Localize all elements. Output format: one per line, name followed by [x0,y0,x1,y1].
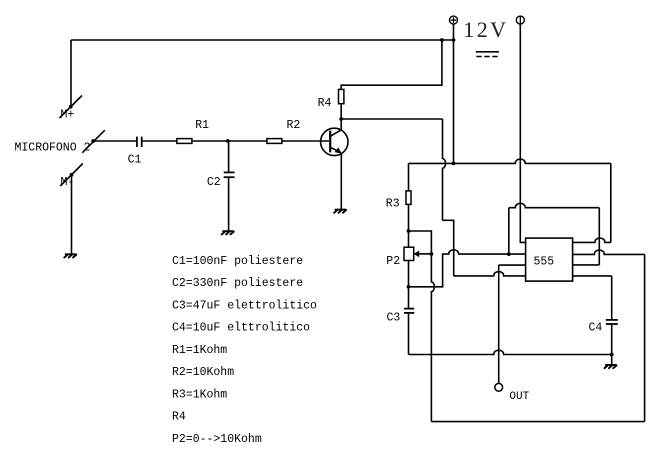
wire jumper right down [598,208,600,265]
wire C4 top stem [611,276,613,320]
wire feedback bottom rail [431,421,644,423]
wire ground rail bottom with hop over OUT wire [409,350,613,354]
svg-text:C1: C1 [128,154,142,167]
wire P2 bottom stem [408,261,410,287]
potentiometer P2 body [404,247,414,260]
node M+ pin slash [59,96,82,119]
wire R1 to node A [192,140,228,142]
node top rail junction dot left [440,38,444,42]
wire C3 bottom stem [408,314,410,355]
svg-text:R3=1Kohm: R3=1Kohm [172,388,227,401]
wire jumper horizontal with hop over minus wire [509,203,600,207]
wire wiper column down with hop over P2 bottom wire [431,254,434,422]
wire emitter stem [340,154,342,209]
wire wiper arrow wire [418,253,432,255]
battery minus terminal [516,16,524,24]
wire collector signal jog right [443,220,454,276]
wire collector signal down right column with hop over vcc rail [443,119,446,220]
ground below C2 [222,231,234,234]
node M- pin dot [70,173,74,177]
wire R2 to base Q1 [282,140,329,142]
capacitor C3 [404,309,414,313]
transistor Q1 [321,128,348,155]
ground below M- [64,254,76,257]
ic 555 box [526,238,573,281]
wire top rail from M+ to 12V plus [71,39,454,41]
wire R3 top stem [408,163,410,191]
node vcc rail junction dot [452,162,456,166]
node trigger junction dot [507,252,511,256]
svg-text:R4: R4 [318,97,332,110]
svg-text:R4: R4 [172,411,186,424]
wire collector stem through node B [340,104,342,130]
DC symbol [476,52,499,57]
resistor R4 [339,89,344,103]
svg-text:12V: 12V [463,17,508,42]
capacitor C2 [224,172,235,177]
node M- pin slash [60,164,83,187]
svg-text:R3: R3 [386,197,400,210]
ground below C4 [605,365,617,368]
wire M+ stem [70,40,72,107]
wire C2 bottom stem [228,178,230,231]
wire 555 right pin to feedback column with hop [573,250,645,254]
wire collector signal to 555 left pin with hop over OUT wire [454,272,526,276]
wire feedback column down [644,254,646,421]
wire P2 top stem [408,231,410,247]
wire R4 top to top rail [341,40,442,89]
wire C3 top stem [408,287,410,308]
svg-text:C2: C2 [207,176,221,189]
svg-text:C2=330nF poliestere: C2=330nF poliestere [172,277,303,290]
wire C2 top stem [228,141,230,172]
wire R3 junction to wiper column [409,231,432,254]
wire ground stub [611,355,613,365]
wire vcc to 555 pin8 with hop [573,238,611,242]
svg-text:R2=10Kohm: R2=10Kohm [172,366,234,379]
wire node B to right column [341,118,442,120]
legend text block [172,255,317,446]
wire OUT vertical [498,265,500,383]
svg-text:C4: C4 [589,322,603,335]
node wiper junction dot [430,252,434,256]
wire vcc rail horizontal with hop over minus wire [409,159,611,163]
svg-text:M-: M- [61,176,75,189]
svg-text:C1=100nF poliestere: C1=100nF poliestere [172,255,303,268]
battery plus terminal [450,16,458,24]
wire node A to R2 [228,140,267,142]
svg-text:C3: C3 [387,311,401,324]
svg-text:R2: R2 [287,119,301,132]
svg-text:M+: M+ [61,109,75,122]
svg-text:R1: R1 [195,119,209,132]
node MICROFONO pin dot [91,139,95,143]
svg-text:C3=47uF elettrolitico: C3=47uF elettrolitico [172,299,317,312]
wire mic to C1 [93,140,137,142]
wire 555 right discharge pin [573,275,612,277]
node A junction dot [226,139,230,143]
node B collector junction dot [339,117,343,121]
wire 555 left pin3 out [499,264,526,266]
svg-text:R1=1Kohm: R1=1Kohm [172,344,227,357]
svg-text:P2=0-->10Kohm: P2=0-->10Kohm [172,433,262,446]
svg-text:MICROFONO 2: MICROFONO 2 [15,142,91,155]
wire P2 bottom to 555 pin with hops [409,250,509,287]
wire minus terminal down to 555 [520,24,525,243]
capacitor C4 [606,320,618,324]
potentiometer P2 wiper arrowhead [414,251,420,258]
capacitor C1 [137,137,142,147]
node top rail junction dot right [452,38,456,42]
wire R3 bottom stem [408,204,410,231]
node M+ pin dot [69,105,73,109]
ground below emitter [334,210,346,213]
node R3 bottom junction dot [407,229,411,233]
svg-text:P2: P2 [386,255,400,268]
wire jumper to 555 right pin [573,264,600,266]
wire trigger-threshold jumper up [508,208,510,254]
svg-text:C4=10uF elttrolitico: C4=10uF elttrolitico [172,322,310,335]
node P2 bottom junction dot [407,285,411,289]
wire trigger junction to 555 left pin [509,253,526,255]
wire 12V plus stem down to vcc rail [453,24,455,164]
wire C4 bottom stem [611,325,613,355]
terminal OUT circle [495,383,503,391]
node MICROFONO pin slash [82,130,105,153]
wire C1 to R1 [142,140,177,142]
wire vcc rail right down [610,163,612,242]
resistor R2 [267,139,282,144]
wire M- stem [71,175,73,254]
resistor R3 [406,191,411,205]
node C4 bottom junction dot [610,353,614,357]
svg-text:555: 555 [534,256,555,269]
svg-text:OUT: OUT [509,391,529,403]
resistor R1 [177,139,192,144]
